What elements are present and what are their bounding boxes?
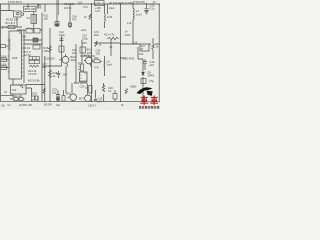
text C19: [123, 56, 135, 60]
text RL1: [1, 55, 7, 58]
wire upper cross y30: [17, 29, 42, 31]
capacitor mid: [57, 71, 60, 78]
svg-text:C88: C88: [37, 6, 42, 10]
junction blob x70: [69, 23, 72, 27]
box BG1: [80, 47, 86, 53]
svg-text:3DG: 3DG: [71, 58, 76, 62]
svg-text:BG7: BG7: [79, 98, 84, 101]
text C12: [59, 30, 65, 37]
svg-text:472: 472: [72, 18, 77, 22]
text BG5: [28, 79, 40, 83]
resistor RL2: [1, 66, 7, 70]
wire cross y56: [80, 55, 95, 57]
label TB3: [37, 3, 42, 10]
svg-text:C9 473: C9 473: [28, 72, 37, 76]
wire input drop: [1, 4, 14, 11]
svg-text:10µ: 10µ: [56, 104, 61, 107]
box below D5: [141, 79, 146, 84]
wire mid column3: [44, 56, 46, 101]
box out1: [32, 96, 39, 100]
text R16: [44, 46, 49, 53]
wire mains line: [1, 26, 22, 28]
text under T1: [28, 27, 34, 30]
wire node x91: [91, 4, 93, 101]
wire node x119: [120, 4, 122, 101]
inductor L3: [104, 14, 107, 22]
wire bottom columns right: [88, 83, 116, 101]
svg-text:100k: 100k: [1, 63, 7, 66]
text mid-left rows: [23, 36, 32, 58]
capacitor C26: [113, 94, 117, 100]
svg-text:0.5µ: 0.5µ: [149, 80, 154, 83]
svg-text:8PS·0M: 8PS·0M: [25, 7, 36, 11]
watermark char 1: [140, 96, 148, 105]
text L4: [94, 60, 112, 70]
watermark small text: [139, 106, 159, 109]
capacitor C20: [144, 9, 148, 12]
text mid-left rows2: [28, 69, 37, 76]
svg-text:10µ: 10µ: [52, 90, 57, 94]
text C16lbl: [133, 40, 144, 56]
wire x13 connector drop: [16, 17, 18, 27]
ic IC2 dot: [22, 87, 23, 88]
wire right edge: [158, 4, 160, 101]
wire node x133: [132, 4, 134, 44]
wire series r line: [10, 98, 25, 100]
capacitor C23 body: [56, 97, 60, 100]
text half watt: [12, 56, 18, 60]
svg-text:100: 100: [44, 49, 49, 53]
transistor BG6: [68, 94, 77, 101]
text R18: [53, 71, 68, 78]
capacitor C25: [94, 99, 97, 100]
relay box K1: [29, 57, 40, 60]
svg-text:2AP9: 2AP9: [148, 73, 155, 77]
svg-text:100k: 100k: [1, 55, 7, 58]
svg-text:1M: 1M: [78, 0, 82, 4]
text IC1 pins: [8, 32, 20, 50]
wire mid-left column: [23, 30, 25, 83]
text BG7: [79, 98, 84, 101]
svg-text:103: 103: [139, 52, 144, 56]
svg-text:4.7k: 4.7k: [83, 5, 89, 9]
wire cross y43 mid: [94, 42, 121, 44]
wire top bus: [0, 3, 160, 5]
text T1 left: [27, 17, 31, 20]
svg-text:103 4n: 103 4n: [64, 7, 72, 10]
text D5: [148, 71, 155, 78]
wire column x76: [75, 44, 77, 83]
svg-text:BG1: BG1: [87, 48, 93, 52]
text BG3: [71, 55, 77, 62]
svg-text:50µ: 50µ: [42, 65, 47, 69]
text C20: [150, 4, 156, 11]
svg-text:8Ω 4.7µ: 8Ω 4.7µ: [78, 62, 80, 71]
ic IC2 pins: [13, 84, 22, 85]
svg-text:4.7k: 4.7k: [95, 9, 101, 13]
svg-text:0.33: 0.33: [107, 15, 113, 19]
text top far right: [109, 0, 156, 10]
relay box K2: [29, 60, 40, 63]
svg-text:1mH: 1mH: [136, 13, 142, 17]
svg-text:10µF: 10µF: [109, 7, 115, 10]
svg-text:W15: W15: [12, 56, 18, 60]
text R20: [94, 56, 99, 60]
wire column x143 diode branch: [121, 59, 144, 101]
svg-text:BG 5 6.8k: BG 5 6.8k: [28, 79, 40, 83]
svg-text:4Ω BTL 8Ω: 4Ω BTL 8Ω: [19, 103, 32, 107]
svg-text:1mH: 1mH: [125, 33, 131, 37]
text rotated x77: [78, 62, 80, 71]
svg-text:4.5-6V R1 C1: 4.5-6V R1 C1: [8, 1, 23, 4]
wire left edge: [0, 4, 2, 101]
text C10: [82, 34, 88, 41]
capacitor C18: [143, 62, 147, 64]
text R30: [85, 87, 88, 90]
watermark logo swoosh: [137, 87, 153, 96]
capacitor C12: [60, 39, 64, 41]
box C21: [95, 1, 105, 6]
wire bottom columns: [58, 83, 72, 101]
ground C20: [145, 12, 149, 14]
wire node x107: [107, 4, 109, 14]
svg-text:100µ: 100µ: [82, 37, 88, 41]
capacitor C23: [56, 95, 60, 97]
text F1: [141, 45, 146, 51]
inductor L1: [133, 9, 134, 20]
svg-text:IC2: IC2: [12, 88, 17, 92]
text C18: [150, 60, 155, 67]
svg-text:6800: 6800: [131, 85, 137, 89]
svg-text:R12: R12: [94, 33, 99, 37]
ic box BG5: [80, 72, 88, 82]
transistor BG3: [59, 54, 69, 67]
resistor R24: [81, 64, 84, 71]
wire stub x45: [44, 4, 46, 12]
svg-text:BG5 3AX31: BG5 3AX31: [74, 81, 88, 85]
text C23: [52, 88, 57, 95]
resistor R18: [49, 70, 52, 78]
inductor L4: [103, 60, 106, 68]
wire center column x50: [49, 28, 51, 101]
wire column x138: [138, 47, 143, 59]
wire cross y83: [26, 84, 45, 86]
svg-text:W 10k R25 (0.5W): W 10k R25 (0.5W): [109, 1, 134, 5]
text L1: [125, 9, 142, 37]
connector CZ: [14, 11, 24, 17]
resistor near watermark: [125, 89, 127, 94]
text C25: [98, 97, 103, 104]
text R1 label: [6, 18, 19, 25]
svg-text:R21 4.7k: R21 4.7k: [104, 33, 115, 37]
wire node top x57: [56, 0, 58, 27]
text 8ohm: [44, 103, 124, 108]
wire label box drop: [28, 4, 38, 8]
svg-text:1mH: 1mH: [107, 62, 113, 66]
text C14: [72, 15, 77, 22]
svg-text:+10c: +10c: [81, 28, 87, 32]
capacitor small x57: [55, 22, 59, 27]
capacitor boxes upper mid: [26, 29, 40, 34]
transformer T1: [31, 15, 37, 24]
text +10V mid: [81, 28, 87, 32]
text C26: [108, 86, 113, 93]
watermark char 2: [150, 96, 158, 105]
svg-text:100µ: 100µ: [59, 33, 65, 37]
ic IC1 pins: [8, 36, 24, 76]
svg-text:C16: C16: [133, 40, 138, 44]
text R22: [82, 41, 87, 45]
resistor R27: [43, 88, 45, 93]
capacitor small body: [55, 24, 58, 26]
wire center column x66: [65, 66, 67, 93]
svg-text:103: 103: [63, 73, 68, 77]
text A7: [4, 90, 8, 94]
svg-text:300: 300: [94, 56, 99, 60]
wire column x153: [152, 38, 154, 59]
resistor RO2: [19, 98, 23, 101]
text +10V: [95, 6, 101, 13]
svg-text:(T1)(4×9): (T1)(4×9): [133, 0, 145, 4]
resistor R21: [107, 37, 119, 40]
svg-text:M: M: [141, 48, 143, 51]
svg-text:L1h: L1h: [127, 21, 132, 25]
filter box F1: [140, 44, 149, 51]
text R23: [99, 43, 113, 50]
svg-text:IC1 D7642: IC1 D7642: [8, 38, 11, 50]
svg-text:R32: R32: [33, 93, 38, 96]
text BG5b: [74, 81, 88, 85]
resistor R9: [89, 14, 91, 19]
resistor R1: [8, 25, 15, 28]
text BG4: [84, 54, 90, 58]
wire column x104: [104, 4, 106, 76]
wire twin x58: [57, 0, 59, 15]
svg-text:C8 1Ω: C8 1Ω: [23, 47, 30, 50]
text top right run: [109, 1, 134, 5]
resistor R3 left: [1, 45, 10, 48]
resistor R13: [29, 65, 39, 67]
resistor R30: [89, 86, 92, 94]
svg-text:0.1µ: 0.1µ: [150, 6, 156, 10]
svg-text:A7: A7: [4, 90, 8, 94]
text RO: [14, 95, 23, 98]
text 1M: [78, 0, 89, 9]
text L3: [107, 15, 113, 19]
wire cross y66: [43, 65, 62, 67]
text C24: [80, 85, 85, 89]
svg-text:C16 100: C16 100: [45, 58, 55, 61]
svg-text:µ10: µ10: [150, 63, 155, 67]
wire center column x61: [61, 36, 63, 66]
text 220V: [1, 27, 8, 30]
wire node x146: [146, 3, 148, 8]
svg-text:401 402: 401 402: [14, 95, 23, 98]
wire column x111: [110, 40, 112, 56]
wire cross y44: [24, 43, 42, 45]
svg-text:10n: 10n: [72, 51, 77, 55]
text RL2: [1, 63, 7, 66]
wire bottom box feeds: [26, 88, 38, 101]
text IC2: [12, 88, 17, 92]
resistor R26: [152, 44, 155, 49]
resistor R31: [102, 85, 105, 92]
text C15: [72, 48, 77, 55]
wire bottom bus: [0, 100, 160, 102]
text C17: [42, 62, 47, 69]
transistor BG4: [84, 56, 92, 67]
text below bus left: [1, 103, 32, 108]
wire mid-left column2: [41, 13, 43, 102]
svg-text:BG6: BG6: [66, 93, 71, 96]
label box power: [24, 6, 37, 11]
resistor RO1: [14, 98, 18, 101]
text 6800: [131, 85, 137, 89]
wire c19 stub: [121, 57, 127, 59]
wire column x82: [81, 40, 83, 64]
svg-text:0.1: 0.1: [108, 89, 112, 93]
text R11: [44, 14, 49, 21]
transistor BG7: [85, 95, 91, 101]
text BG1: [87, 48, 93, 56]
svg-text:C21: C21: [96, 2, 102, 6]
ic IC2: [11, 85, 27, 94]
text C16mid: [45, 58, 55, 61]
svg-text:C13 C88: C13 C88: [64, 3, 74, 6]
svg-text:103: 103: [96, 52, 101, 56]
resistor R15: [95, 41, 97, 46]
wire ic left drop: [1, 79, 13, 98]
svg-text:8Ω SP: 8Ω SP: [44, 103, 52, 107]
text C21: [96, 2, 102, 6]
text R12: [94, 30, 100, 37]
resistor R28: [62, 96, 65, 102]
text R9: [84, 15, 87, 19]
svg-text:220 4: 220 4: [1, 27, 8, 30]
svg-text:10k: 10k: [44, 17, 49, 21]
svg-text:C19 4700: C19 4700: [123, 56, 135, 60]
box C12b: [59, 46, 64, 52]
text C13: [64, 3, 74, 10]
svg-text:GN: GN: [1, 105, 5, 108]
wire node top x70: [69, 4, 71, 28]
svg-text:R15: R15: [82, 41, 87, 45]
wire left resistor leads: [1, 60, 9, 68]
resistor R16: [49, 46, 52, 52]
svg-text:µ47: µ47: [98, 99, 103, 103]
resistor RL1: [1, 58, 7, 62]
svg-text:4.7k: 4.7k: [94, 66, 100, 70]
wire column x145: [144, 59, 146, 70]
svg-text:B1 Lfk 4: B1 Lfk 4: [6, 21, 16, 25]
text out1: [33, 93, 38, 96]
wire cross y40: [24, 39, 42, 41]
wire cross y44 right: [120, 43, 159, 45]
svg-text:2Ω: 2Ω: [23, 36, 26, 39]
op-amp IC1: [9, 31, 22, 79]
text C14b: [96, 49, 101, 56]
wire T1 leads: [33, 11, 35, 28]
text R26: [156, 45, 159, 49]
text right of box: [149, 80, 154, 83]
text BG6: [66, 93, 71, 96]
diode D5: [142, 72, 145, 75]
resistor R20: [93, 60, 102, 63]
svg-text:C25 4.7: C25 4.7: [88, 104, 97, 107]
junction dots: [20, 3, 143, 102]
text R21: [104, 33, 115, 37]
text top left tiny: [8, 1, 23, 4]
diode D1: [33, 38, 38, 42]
box mid-left: [33, 45, 40, 49]
